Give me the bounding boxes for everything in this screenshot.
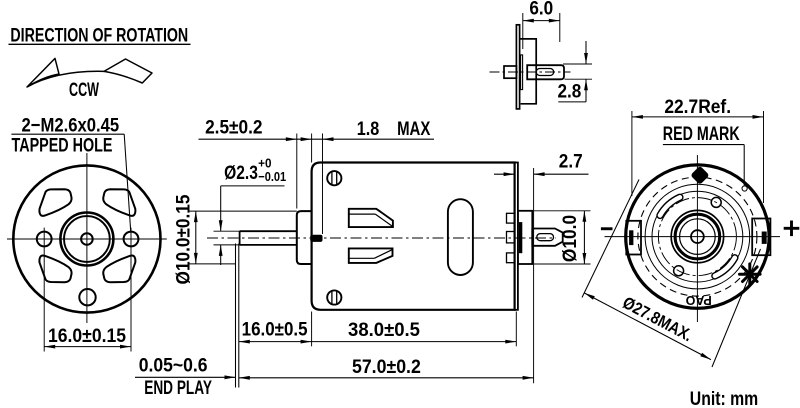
small hole top-right [711, 197, 721, 207]
vent slot bottom-left [39, 256, 71, 283]
dim Ø10.0±0.15 extension lines [188, 210, 297, 212]
motor body outline [312, 163, 515, 310]
front horizontal centerline [7, 238, 167, 240]
dimension 2.8 [585, 41, 587, 64]
svg-text:16.0±0.5: 16.0±0.5 [242, 317, 308, 339]
dim Ø2.3 extension lines [214, 230, 240, 232]
front bearing boss inner circle [64, 216, 110, 262]
right terminal (plus) [752, 219, 770, 256]
bottom pilot hole [79, 289, 95, 305]
svg-text:TAPPED HOLE: TAPPED HOLE [12, 134, 113, 156]
vent slot bottom-right [103, 256, 135, 283]
svg-text:CCW: CCW [69, 80, 99, 101]
thin circle r52 [645, 184, 750, 289]
svg-text:38.0±0.5: 38.0±0.5 [348, 320, 420, 342]
svg-text:0.05~0.6: 0.05~0.6 [139, 353, 208, 375]
front bearing boss outer circle [60, 213, 113, 266]
svg-text:16.0±0.15: 16.0±0.15 [48, 324, 126, 346]
svg-text:57.0±0.2: 57.0±0.2 [352, 355, 421, 377]
red mark leader [743, 145, 745, 186]
end cap plate edge [516, 25, 519, 109]
svg-text:2.5±0.2: 2.5±0.2 [205, 115, 262, 137]
rear shaft hole [691, 230, 704, 243]
dim Ø10.0 extension lines (right) [534, 210, 591, 212]
svg-text:PAO: PAO [685, 293, 711, 307]
cap step outline [520, 39, 537, 104]
front shaft hole [81, 233, 93, 245]
bottom housing screw [327, 290, 341, 304]
terminal view centerline [490, 71, 571, 73]
svg-text:22.7Ref.: 22.7Ref. [664, 95, 731, 117]
svg-text:−0.01: −0.01 [258, 169, 286, 184]
dim 57.0 extension line [533, 168, 535, 383]
rear slot upper-left [660, 197, 680, 215]
terminal blade top view [527, 65, 564, 79]
bolt circle dash-dot [658, 198, 736, 276]
terminal blade side view [532, 229, 562, 246]
dimension Ø27.8MAX. [584, 293, 711, 360]
svg-text:MAX: MAX [397, 117, 431, 139]
dim 2.5±0.2 extension lines [296, 134, 298, 209]
red mark diamond [690, 166, 709, 185]
rear bearing ring thick [675, 214, 720, 259]
top housing screw [327, 171, 341, 185]
rear slot lower-right [715, 258, 735, 276]
dim Ø27.8 extension line 1 [582, 180, 639, 298]
rear housing outer circle [626, 165, 769, 308]
dim 16.0±0.15 extension lines [43, 228, 45, 352]
thin circle r45 [652, 191, 743, 282]
rear cap ring r26 [671, 210, 723, 262]
dim 22.7 extension lines [631, 111, 633, 196]
dim Ø27.8 extension line 2 [712, 249, 761, 367]
rear hub inner ring [680, 219, 716, 255]
shaft stub left of plate [504, 66, 516, 78]
rear vertical centerline [696, 155, 698, 322]
plus sign [784, 227, 800, 230]
dashed circle [638, 177, 757, 296]
dim 6.0 extension lines [522, 13, 524, 49]
svg-text:2−M2.6x0.45: 2−M2.6x0.45 [21, 114, 119, 136]
brush cap seam bar [519, 222, 522, 253]
rear horizontal centerline [605, 236, 781, 238]
end play extension lines [235, 244, 237, 388]
upper vent louver [349, 209, 393, 227]
svg-text:DIRECTION OF ROTATION: DIRECTION OF ROTATION [10, 24, 188, 46]
left tapped hole M2.6 [37, 232, 52, 247]
right tapped hole M2.6 [124, 232, 139, 247]
front housing outer circle [13, 165, 160, 312]
svg-text:Ø10.0±0.15: Ø10.0±0.15 [171, 195, 193, 285]
asterisk mark [740, 264, 761, 285]
small hole bottom-left [674, 266, 684, 276]
svg-text:6.0: 6.0 [529, 0, 553, 19]
body oval slot [448, 199, 473, 275]
svg-text:2.7: 2.7 [559, 149, 583, 171]
svg-text:2.8: 2.8 [557, 79, 581, 101]
cap rib [521, 55, 523, 90]
dim 38.0 extension lines [311, 312, 313, 347]
svg-text:Ø2.3: Ø2.3 [224, 161, 258, 183]
lower vent louver [349, 248, 393, 263]
dim 2.8 extension lines [563, 63, 592, 65]
end cap edge [515, 163, 518, 310]
brush cap block [518, 211, 532, 264]
CCW rotation arrow symbol [27, 58, 152, 87]
svg-text:1.8: 1.8 [357, 117, 380, 139]
vent slot top-right [103, 189, 135, 216]
svg-text:Ø10.0: Ø10.0 [558, 215, 580, 262]
minus sign [601, 227, 613, 230]
svg-text:RED MARK: RED MARK [663, 123, 740, 145]
leader to right tapped hole [124, 134, 131, 231]
left terminal (minus) [626, 221, 641, 255]
vent slot top-left [39, 189, 71, 216]
brush cap terminal tabs [507, 213, 515, 223]
front vertical centerline [86, 153, 88, 323]
bearing boss [297, 211, 312, 264]
svg-text:Unit: mm: Unit: mm [690, 387, 758, 408]
shaft pinion stop (filled) [310, 235, 322, 242]
svg-text:END PLAY: END PLAY [144, 376, 212, 398]
motor shaft [240, 230, 297, 232]
main centerline [207, 237, 556, 239]
